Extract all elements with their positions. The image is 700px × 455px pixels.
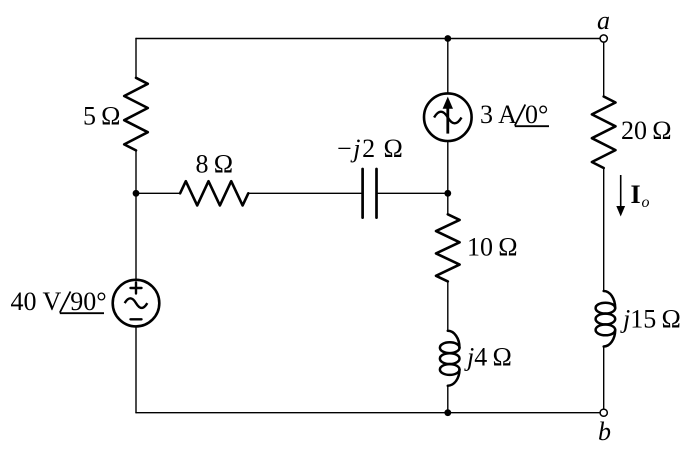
voltage source 40V/90deg circle (113, 280, 160, 327)
wire top: left corner to node a (136, 38, 600, 40)
junction dot middle node (444, 190, 451, 197)
svg-text:0°: 0° (525, 100, 548, 129)
wire middle horizontal: left node to 8ohm resistor (136, 192, 180, 194)
wire middle branch (current source to middle node) (447, 141, 449, 193)
wire right branch upper (node a to 20ohm) (603, 42, 605, 96)
svg-text:j4 Ω: j4 Ω (464, 343, 512, 372)
wire middle horizontal: 8ohm to capacitor (248, 192, 362, 194)
current source arrow shaft (446, 108, 449, 134)
svg-text:10 Ω: 10 Ω (467, 233, 518, 262)
junction dot top-middle node (444, 35, 451, 42)
svg-text:j15 Ω: j15 Ω (620, 305, 681, 334)
wire middle branch: j4 inductor to bottom node (447, 386, 449, 413)
wire middle branch upper (top node to current source) (447, 39, 449, 94)
wire bottom: left corner to node b (136, 412, 600, 414)
svg-text:20 Ω: 20 Ω (621, 116, 672, 145)
Io current arrowhead (616, 206, 625, 217)
wire left branch lower (voltage source to bottom corner) (135, 326, 137, 412)
terminal a open circle (600, 35, 607, 42)
inductor j15ohm (right branch) (596, 291, 616, 347)
Io current arrow shaft (620, 175, 622, 208)
current source arrowhead (443, 97, 453, 109)
voltage source plus sign (131, 283, 142, 294)
resistor 10ohm (middle branch) (436, 214, 460, 281)
svg-text:a: a (597, 6, 610, 35)
svg-text:b: b (598, 417, 611, 446)
inductor j4ohm (middle branch) (440, 331, 460, 386)
wire middle branch: node to 10ohm resistor (447, 193, 449, 214)
svg-text:3 A: 3 A (480, 100, 517, 129)
capacitor -j2ohm right plate (375, 169, 378, 218)
current source sine wave (434, 112, 461, 124)
svg-text:40 V: 40 V (11, 287, 62, 316)
wire right branch middle (20ohm to j15 inductor) (603, 168, 605, 291)
svg-text:8 Ω: 8 Ω (196, 150, 234, 179)
voltage source minus sign (131, 318, 142, 320)
capacitor -j2ohm left plate (361, 169, 364, 218)
voltage source sine wave (125, 298, 148, 308)
terminal b open circle (600, 409, 607, 416)
svg-text:o: o (642, 194, 650, 211)
wire right branch lower (j15 inductor to node b) (603, 347, 605, 410)
resistor 5ohm (left branch) (124, 78, 148, 151)
svg-text:−j2 Ω: −j2 Ω (337, 134, 404, 163)
resistor 20ohm (right branch) (592, 97, 616, 169)
resistor 8ohm (middle horizontal) (180, 181, 248, 205)
current source 3A/0deg circle (424, 93, 472, 141)
svg-text:5 Ω: 5 Ω (83, 102, 121, 131)
angle symbol for 40V label (60, 292, 104, 314)
wire left branch upper (top corner to 5ohm resistor) (135, 39, 137, 78)
wire left branch middle (5ohm to voltage source) (135, 150, 137, 279)
wire middle branch: 10ohm to j4 inductor (447, 281, 449, 330)
svg-text:90°: 90° (70, 287, 106, 316)
wire middle horizontal: capacitor to middle node (377, 192, 448, 194)
junction dot left-middle node (133, 190, 140, 197)
angle symbol for 3A label (515, 105, 549, 127)
junction dot bottom-middle node (444, 409, 451, 416)
svg-text:I: I (631, 180, 641, 209)
